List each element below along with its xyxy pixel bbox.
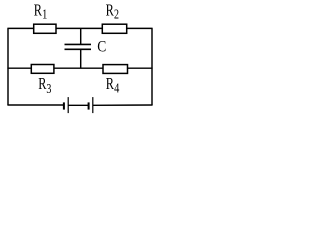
svg-text:1: 1: [42, 8, 47, 23]
svg-text:4: 4: [114, 82, 119, 97]
svg-text:R: R: [34, 1, 42, 20]
svg-text:3: 3: [46, 82, 51, 97]
svg-text:C: C: [97, 39, 106, 56]
svg-text:R: R: [38, 74, 46, 93]
svg-text:R: R: [106, 74, 114, 93]
svg-text:R: R: [106, 1, 114, 20]
svg-text:2: 2: [114, 8, 119, 23]
